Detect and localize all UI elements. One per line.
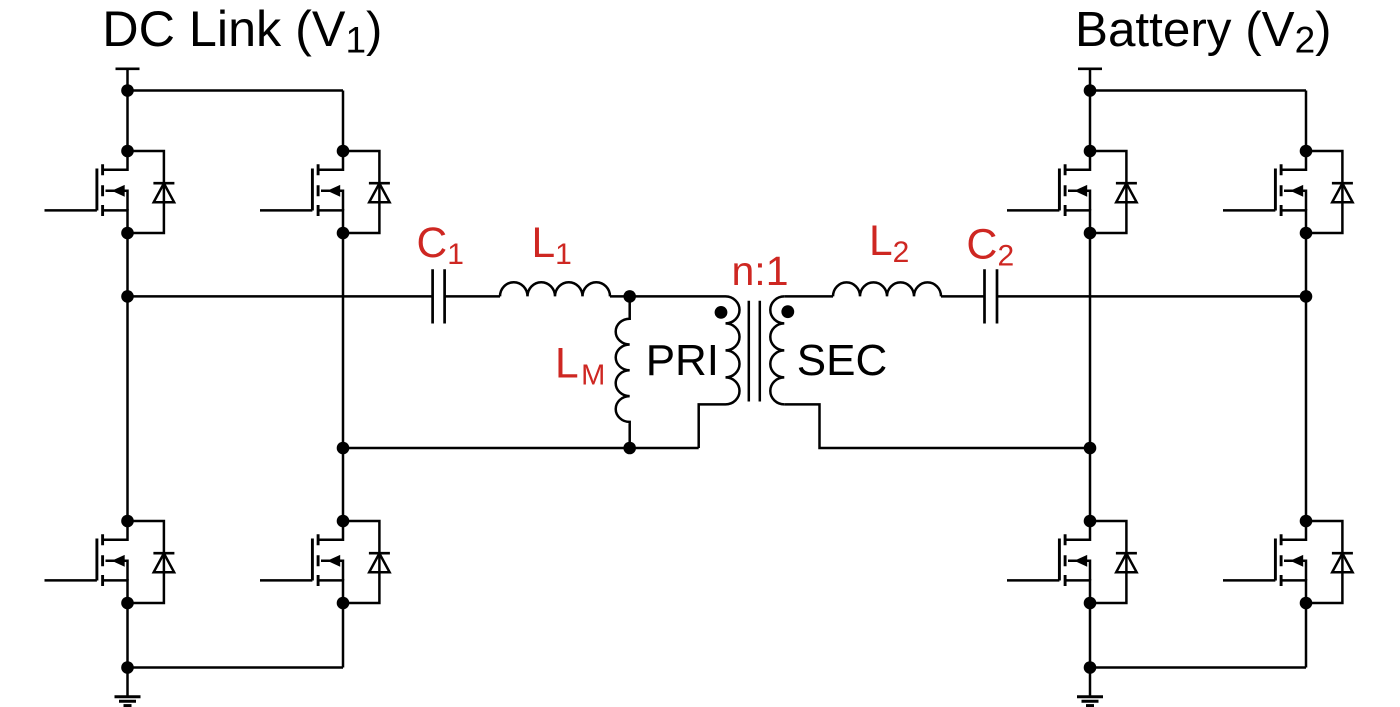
node: left ground node — [121, 661, 134, 674]
wire: right leg2 source through mid to lower drain — [1305, 233, 1308, 521]
wire: node A to C1 — [128, 295, 433, 298]
capacitor C1 — [433, 269, 445, 323]
transistor Q3 — [45, 515, 175, 610]
node: right ground node — [1084, 661, 1097, 674]
wire: right leg2 source to bottom rail — [1305, 603, 1308, 668]
wire: right top rail — [1090, 89, 1306, 92]
wire: bottom left return — [343, 447, 699, 450]
node: bridge A output — [121, 290, 134, 303]
wire: L1 to tank node — [610, 295, 726, 298]
DC link positive terminal — [116, 69, 140, 97]
wire: right leg2 top drop — [1305, 91, 1308, 152]
wire: leg1 source to mid node — [126, 233, 129, 296]
svg-text:n:1: n:1 — [732, 248, 789, 294]
inductor L1 — [500, 282, 610, 296]
wire: secondary bottom lead — [784, 404, 1090, 448]
transistor Q1 — [45, 145, 175, 240]
wire: C1 to L1 — [445, 295, 500, 298]
transistor Q4 — [260, 515, 390, 610]
wire: left bottom rail — [128, 666, 344, 669]
svg-text:Battery (V2): Battery (V2) — [1075, 2, 1332, 61]
node: primary phase dot — [715, 306, 728, 319]
transformer secondary winding — [770, 296, 784, 404]
node: tank top node — [623, 290, 636, 303]
inductor LM — [616, 296, 630, 448]
capacitor C2 — [985, 269, 998, 323]
node: secondary bottom node — [1084, 442, 1097, 455]
wire: L2 to C2 — [941, 295, 985, 298]
node: bridge B output — [337, 442, 350, 455]
wire: left leg2 top drop — [342, 91, 345, 152]
wire: leg1 source to bottom rail — [126, 603, 129, 668]
node: right bridge B input — [1300, 290, 1313, 303]
transistor Q2 — [260, 145, 390, 240]
transistor Q6 — [1223, 145, 1353, 240]
inductor L2 — [833, 282, 941, 296]
node: secondary phase dot — [781, 305, 794, 318]
wire: right leg1 source to bottom rail — [1089, 603, 1092, 668]
svg-text:DC Link (V1): DC Link (V1) — [102, 0, 382, 61]
wire: primary bottom lead — [699, 404, 726, 448]
ground — [1077, 668, 1103, 706]
transformer primary winding — [726, 296, 740, 404]
wire: left leg1 top drop — [126, 91, 129, 152]
wire: right leg1 top drop — [1089, 91, 1092, 152]
wire: C2 to right bridge — [997, 295, 1306, 298]
wire: leg2 source through mid to lower drain — [342, 233, 345, 521]
svg-text:PRI: PRI — [646, 336, 719, 385]
transistor Q8 — [1223, 515, 1353, 610]
node: tank bottom node — [623, 442, 636, 455]
transistor Q5 — [1007, 145, 1137, 240]
wire: leg1 mid to lower drain — [126, 296, 129, 521]
wire: left top rail — [128, 89, 344, 92]
wire: leg2 source to bottom rail — [342, 603, 345, 668]
wire: secondary top to L2 — [784, 295, 833, 298]
battery positive terminal — [1078, 69, 1102, 97]
transistor Q7 — [1007, 515, 1137, 610]
svg-text:SEC: SEC — [797, 336, 887, 385]
ground — [115, 668, 141, 706]
wire: right leg1 source through mid to lower drain — [1089, 233, 1092, 521]
transformer core — [749, 301, 760, 402]
wire: right bottom rail — [1090, 666, 1306, 669]
